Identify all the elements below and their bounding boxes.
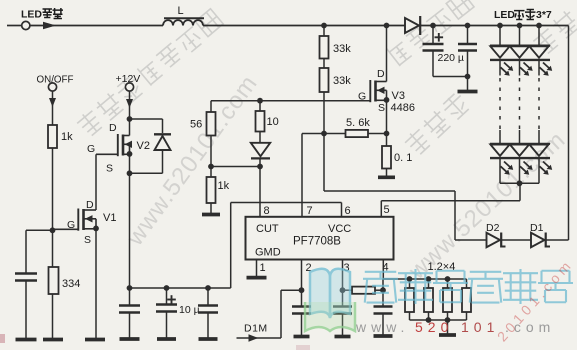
label +12V xyxy=(116,73,141,85)
svg-text:V1: V1 xyxy=(103,212,116,224)
svg-text:V2: V2 xyxy=(137,140,150,152)
label CUT xyxy=(256,223,279,235)
label 4486 xyxy=(391,102,415,114)
wire pin8 vertical xyxy=(259,167,261,217)
wire bank bottom rail xyxy=(410,319,467,321)
capacitor left xyxy=(15,274,37,281)
svg-text:PF7708B: PF7708B xyxy=(293,236,341,248)
wire between 33k xyxy=(323,59,325,69)
svg-text:D1: D1 xyxy=(530,222,544,234)
wire cap2 line xyxy=(467,26,469,91)
label G (V1) xyxy=(67,219,75,231)
label 334 xyxy=(62,278,80,290)
label 220u xyxy=(438,52,465,64)
node LED string 3 tap xyxy=(536,23,542,29)
ground filter caps xyxy=(458,90,478,94)
wire pin4 cap line xyxy=(382,279,384,307)
wire pin3 cap ground xyxy=(342,314,344,336)
wire 33k to FB node xyxy=(323,92,325,134)
node LED return xyxy=(517,180,523,186)
diode across V2 (body) xyxy=(154,134,171,150)
svg-text:5: 5 xyxy=(384,204,390,216)
svg-text:L: L xyxy=(177,5,183,17)
wire LED return rail xyxy=(500,182,539,184)
resistor R 1k (ON/OFF) xyxy=(48,125,57,148)
wire pin4 cap ground xyxy=(382,314,384,336)
LED triangles row2 xyxy=(490,145,548,156)
label 1k xyxy=(61,131,73,143)
wire diode to pin8 node xyxy=(259,158,261,166)
label S (V1) xyxy=(84,234,91,246)
label VCC xyxy=(328,223,351,235)
ground rail c1 xyxy=(120,337,140,341)
svg-text:LED: LED xyxy=(494,9,515,21)
wire V2 gate to V1 drain xyxy=(96,154,118,210)
wire drain stub V2 xyxy=(129,119,131,136)
ground pin 1 xyxy=(247,276,267,280)
terminal ON/OFF xyxy=(48,83,56,91)
svg-text:1k: 1k xyxy=(61,131,73,143)
wire 0.1 to ground xyxy=(386,169,388,177)
node 33k tap xyxy=(321,23,327,29)
label PF7708B xyxy=(293,236,341,248)
node LED string 1 tap xyxy=(497,23,503,29)
label S (V3) xyxy=(378,102,385,114)
capacitor pin3 xyxy=(333,307,352,314)
ground pin4 cap xyxy=(374,334,393,338)
wire pin5 to LED return xyxy=(381,183,520,200)
node LED string 2 tap xyxy=(517,23,523,29)
transistor Q V3 MOSFET xyxy=(370,80,389,103)
svg-text:10: 10 xyxy=(267,116,279,128)
label 0.1 xyxy=(394,152,412,164)
pin 5 label xyxy=(384,204,390,216)
wire pin 4 down and right xyxy=(383,260,466,280)
label D (V1) xyxy=(86,199,94,211)
wire +12V down xyxy=(129,91,131,119)
svg-text:7: 7 xyxy=(307,205,313,217)
svg-text:1: 1 xyxy=(260,262,266,274)
svg-text:220 µ: 220 µ xyxy=(438,52,465,64)
wire pin2 cap to ground xyxy=(301,314,303,336)
ground divider 1k xyxy=(202,213,220,217)
svg-text:D: D xyxy=(377,68,385,80)
wire 220u top xyxy=(432,26,434,45)
svg-text:S: S xyxy=(84,234,91,246)
label V3 xyxy=(392,90,405,102)
label D2 xyxy=(486,222,500,234)
pin 1 label xyxy=(260,262,266,274)
wire band to cap rail xyxy=(230,203,232,289)
node pin4 cap xyxy=(380,287,386,293)
wire V3 drain stub xyxy=(386,26,388,82)
svg-text:1k: 1k xyxy=(218,180,230,192)
diode D1 xyxy=(531,233,550,248)
svg-text:8: 8 xyxy=(264,205,270,217)
pin 6 label xyxy=(345,205,351,217)
transistor Q V1 MOSFET xyxy=(78,209,99,232)
svg-text:G: G xyxy=(358,91,366,103)
node gate V1 junction xyxy=(50,227,56,233)
wire 1k to ground xyxy=(210,203,212,214)
svg-text:56: 56 xyxy=(190,119,202,131)
label ON/OFF xyxy=(37,75,74,86)
resistor R 10 xyxy=(256,101,265,132)
svg-text:D2: D2 xyxy=(486,222,500,234)
wire V2 diode bottom xyxy=(130,150,163,173)
node bias tap R10 xyxy=(257,98,263,104)
pin 7 label xyxy=(307,205,313,217)
resistor bank 1.2 ohm x4 xyxy=(405,279,471,320)
wire junction to left cap xyxy=(26,230,53,273)
label V2 xyxy=(137,140,150,152)
scan smudge bottom mid xyxy=(296,345,310,350)
resistor R 56 xyxy=(207,112,216,136)
transistor Q V2 MOSFET xyxy=(118,134,133,157)
resistor R 5.6k xyxy=(346,130,369,137)
LED emission arrows row2 xyxy=(501,162,553,175)
rectifier diode top xyxy=(405,16,420,35)
LED anode bar row2 xyxy=(490,143,550,145)
label 33k lower xyxy=(333,75,351,87)
svg-text:3*7: 3*7 xyxy=(536,9,552,21)
wire 1k to 334 xyxy=(52,148,54,267)
wire LED mid stubs dashed xyxy=(500,60,539,144)
diode D3 down xyxy=(251,143,270,159)
label 56 xyxy=(190,119,202,131)
node V2 drain xyxy=(127,116,133,122)
wire FB to 5.6k xyxy=(324,133,346,135)
wire top rail inductor to boost node xyxy=(203,25,405,27)
label 10u xyxy=(179,304,200,316)
label 33k upper xyxy=(333,43,351,55)
svg-text:V3: V3 xyxy=(392,90,405,102)
terminal LED power input xyxy=(22,21,30,29)
pin 3 label xyxy=(344,262,350,274)
pin 8 label xyxy=(264,205,270,217)
label 1.2x4 xyxy=(428,261,456,273)
svg-text:334: 334 xyxy=(62,278,80,290)
label 1k divider xyxy=(218,180,230,192)
wire right edge vertical xyxy=(568,26,570,241)
node pin 3 xyxy=(340,287,346,293)
wire pin 3 down xyxy=(342,260,344,307)
op-amp U1 PF7708B body xyxy=(246,217,394,260)
wire V1 source to ground xyxy=(95,229,97,339)
label D (V2) xyxy=(109,122,117,134)
node bank top 2 xyxy=(426,276,432,282)
wire V3 source down xyxy=(386,100,388,146)
capacitor pin2 xyxy=(292,307,311,314)
LED triangles row1 xyxy=(490,46,548,57)
ground 10u xyxy=(157,337,176,341)
node pin 2 xyxy=(299,287,305,293)
wire FB to pin7 xyxy=(302,134,324,217)
ground rail c3 xyxy=(199,337,218,341)
svg-text:www.: www. xyxy=(355,319,409,335)
label D1 xyxy=(530,222,544,234)
wire rail to 33k xyxy=(323,26,325,37)
label GMD xyxy=(255,247,281,259)
wire V2 diode top xyxy=(130,119,163,133)
node feedback junction xyxy=(321,131,327,137)
wire 10 to diode xyxy=(259,132,261,143)
capacitor pin4 xyxy=(374,307,393,314)
node bank top 1 xyxy=(407,276,413,282)
ground pin2 cap xyxy=(294,335,310,339)
watermark red corner fragment xyxy=(494,256,576,345)
pin 2 label xyxy=(306,262,312,274)
ground left cap xyxy=(16,338,37,342)
svg-text:G: G xyxy=(67,219,75,231)
node V3 drain tap xyxy=(384,23,390,29)
watermark logo book + teal CJK xyxy=(305,269,573,331)
label V1 xyxy=(103,212,116,224)
wire V1 gate lead xyxy=(53,228,78,230)
svg-text:5. 6k: 5. 6k xyxy=(346,117,370,129)
wire LED bottom stubs xyxy=(500,158,539,183)
pin 4 label xyxy=(383,262,389,274)
wire 56 junction to pin8 node xyxy=(211,166,260,168)
watermark www.520101.com bottom xyxy=(355,319,555,335)
node rail cap3 xyxy=(205,285,211,291)
resistor R 33k lower xyxy=(320,68,329,92)
resistor R 1k (divider) xyxy=(207,167,216,204)
wire to D2 xyxy=(455,239,487,241)
svg-text:4486: 4486 xyxy=(391,102,415,114)
svg-text:G: G xyxy=(87,143,95,155)
LED emission arrows row1 xyxy=(501,63,553,76)
capacitor 220u electrolytic xyxy=(423,33,444,51)
node rail cap2 10u xyxy=(164,285,170,291)
ground bank xyxy=(439,333,456,337)
capacitor rail c1 xyxy=(119,288,140,338)
svg-text:10 µ: 10 µ xyxy=(179,304,200,316)
node bank bottom 3 xyxy=(445,317,451,323)
terminal +12V xyxy=(125,83,133,91)
node 220u tap xyxy=(430,23,436,29)
node rail cap1 xyxy=(127,285,133,291)
label 10 xyxy=(267,116,279,128)
label D (V3) xyxy=(377,68,385,80)
arrow down ON/OFF xyxy=(49,98,56,107)
arrow down +12V xyxy=(126,99,133,108)
resistor R 0.1 xyxy=(382,146,391,169)
arrow DIM xyxy=(249,334,259,341)
label D1M xyxy=(244,323,268,335)
wire 334 to ground xyxy=(52,294,54,339)
wire D1 to right edge xyxy=(546,239,569,241)
wire V2 source down to cap rail xyxy=(129,154,131,288)
resistor R 334 xyxy=(49,267,59,294)
svg-text:S: S xyxy=(378,102,385,114)
label G (V2) xyxy=(87,143,95,155)
LED anode bar row1 xyxy=(490,44,550,46)
ground 0.1 xyxy=(378,175,395,179)
node bank bottom 2 xyxy=(426,317,432,323)
watermark diagonal light-gray text xyxy=(75,0,577,285)
inductor L xyxy=(163,18,204,25)
node caps join xyxy=(465,74,471,80)
wire gate bias top xyxy=(211,101,371,112)
wire top rail left stub xyxy=(7,25,22,27)
pin 5 riser xyxy=(380,201,382,217)
wire D2 to D1 xyxy=(502,239,532,241)
wire left cap to ground xyxy=(25,281,27,340)
label LED供电 xyxy=(21,8,63,21)
svg-text:0. 1: 0. 1 xyxy=(394,152,412,164)
svg-text:D: D xyxy=(86,199,94,211)
wire top rail diode to right corner xyxy=(421,25,569,27)
svg-text:CUT: CUT xyxy=(256,223,279,235)
node bank top 3 xyxy=(445,276,451,282)
capacitor rail c3 xyxy=(198,288,218,338)
node diode bottom pin8 xyxy=(257,164,263,170)
ground 334 xyxy=(43,338,63,342)
arrow current direction right xyxy=(43,22,56,30)
wire DIM input path xyxy=(237,290,302,338)
wire LED top stubs xyxy=(500,26,539,46)
label G (V3) xyxy=(358,91,366,103)
svg-text:S: S xyxy=(106,163,113,175)
resistor R 33k upper xyxy=(320,36,329,59)
svg-text:D1M: D1M xyxy=(244,323,268,335)
LED cathode bar row2 xyxy=(490,157,550,159)
pin 1 ground stub xyxy=(256,260,258,277)
wire bank to ground xyxy=(447,320,449,334)
wire cap rail xyxy=(130,287,231,289)
wire pin 2 down xyxy=(301,260,303,307)
svg-text:D: D xyxy=(109,122,117,134)
svg-text:VCC: VCC xyxy=(328,223,351,235)
label 5.6k xyxy=(346,117,370,129)
wire A FB to D2 loop xyxy=(324,134,455,241)
svg-text:6: 6 xyxy=(345,205,351,217)
ground pin3 cap xyxy=(335,335,351,339)
wire ON/OFF down xyxy=(52,91,54,125)
label S (V2) xyxy=(106,163,113,175)
svg-text:LED: LED xyxy=(21,9,42,21)
diode D2 xyxy=(487,233,506,248)
svg-text:520: 520 xyxy=(415,319,453,335)
svg-text:33k: 33k xyxy=(333,75,351,87)
capacitor filter 2 xyxy=(458,44,477,51)
wire 56 to junction xyxy=(210,136,212,167)
label LED灯珠3*7 xyxy=(494,9,552,21)
wire 5.6k to source node xyxy=(368,133,387,135)
svg-text:33k: 33k xyxy=(333,43,351,55)
wire pin band 8-7 xyxy=(231,203,342,217)
wire top rail to inductor xyxy=(30,25,163,27)
scan smudge left edge xyxy=(0,334,5,343)
node 56 bottom xyxy=(208,164,214,170)
node V2 source junction xyxy=(127,170,133,176)
resistor R horizontal pin3 xyxy=(343,287,384,294)
node V3 source 5.6k xyxy=(384,131,390,137)
ground V1 source xyxy=(85,338,105,342)
wire 220u bottom xyxy=(433,51,468,77)
node cap2 tap xyxy=(465,23,471,29)
svg-text:GMD: GMD xyxy=(255,247,281,259)
capacitor 10u electrolytic xyxy=(156,288,177,338)
label L xyxy=(177,5,183,17)
LED cathode bar row1 xyxy=(490,59,550,61)
